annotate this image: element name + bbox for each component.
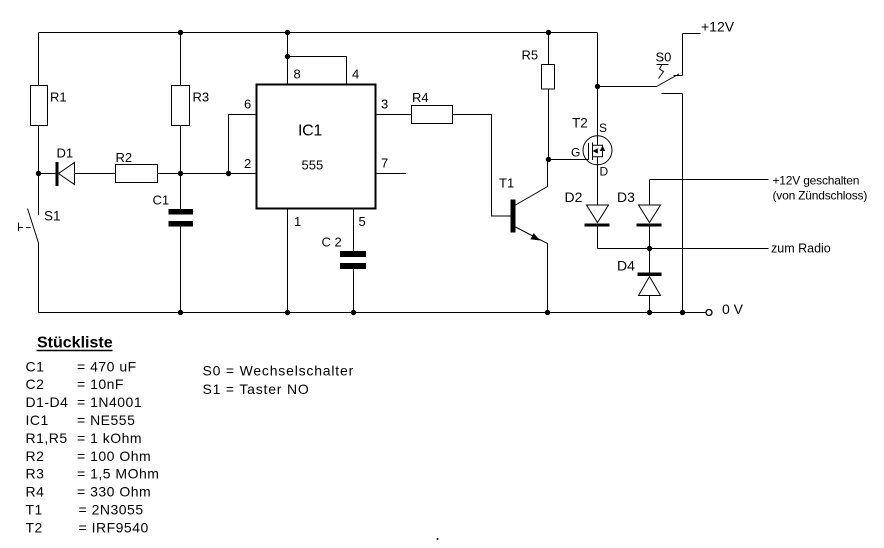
- svg-text:D2: D2: [565, 189, 583, 205]
- svg-text:R1,R5: R1,R5: [26, 430, 68, 446]
- svg-text:0 V: 0 V: [722, 301, 744, 317]
- svg-text:IC1: IC1: [26, 412, 49, 428]
- svg-text:R3: R3: [193, 90, 210, 105]
- svg-text:Stückliste: Stückliste: [37, 335, 113, 352]
- svg-text:S0: S0: [656, 50, 672, 65]
- svg-text:T1: T1: [26, 502, 43, 518]
- svg-text:C1: C1: [153, 193, 170, 208]
- svg-text:= 470 uF: = 470 uF: [77, 358, 137, 374]
- svg-text:= IRF9540: = IRF9540: [79, 519, 149, 535]
- svg-text:+12V: +12V: [701, 19, 735, 35]
- svg-text:R2: R2: [116, 150, 133, 165]
- svg-text:D1: D1: [57, 146, 74, 161]
- svg-text:2: 2: [244, 156, 251, 171]
- svg-text:= NE555: = NE555: [77, 412, 135, 428]
- svg-text:R5: R5: [522, 48, 539, 63]
- svg-text:R4: R4: [412, 90, 429, 105]
- svg-text:= 10nF: = 10nF: [77, 376, 124, 392]
- svg-text:8: 8: [294, 67, 301, 82]
- svg-text:R1: R1: [50, 90, 67, 105]
- svg-text:R4: R4: [26, 484, 45, 500]
- svg-text:3: 3: [381, 97, 388, 112]
- svg-text:R3: R3: [26, 466, 45, 482]
- svg-text:1: 1: [294, 214, 301, 229]
- svg-text:6: 6: [244, 97, 251, 112]
- svg-text:C2: C2: [26, 376, 45, 392]
- svg-text:= 330 Ohm: = 330 Ohm: [77, 484, 151, 500]
- svg-text:(von Zündschloss): (von Zündschloss): [773, 189, 868, 203]
- svg-text:S1 = Taster NO: S1 = Taster NO: [203, 381, 310, 397]
- svg-text:D1-D4: D1-D4: [26, 394, 69, 410]
- svg-text:T2: T2: [26, 519, 43, 535]
- svg-text:= 1,5 MOhm: = 1,5 MOhm: [77, 466, 159, 482]
- svg-text:555: 555: [302, 158, 324, 173]
- svg-text:D4: D4: [617, 258, 635, 274]
- svg-text:= 100 Ohm: = 100 Ohm: [77, 448, 151, 464]
- svg-text:zum Radio: zum Radio: [771, 242, 831, 256]
- svg-text:S0 = Wechselschalter: S0 = Wechselschalter: [203, 363, 355, 379]
- svg-text:= 1N4001: = 1N4001: [77, 394, 142, 410]
- svg-text:5: 5: [359, 214, 366, 229]
- svg-text:T1: T1: [499, 176, 514, 191]
- svg-text:+12V geschalten: +12V geschalten: [773, 174, 860, 188]
- svg-text:R2: R2: [26, 448, 45, 464]
- svg-text:C1: C1: [26, 358, 45, 374]
- svg-text:S: S: [599, 121, 607, 135]
- svg-text:D: D: [600, 165, 609, 179]
- svg-text:S1: S1: [44, 209, 61, 224]
- svg-text:4: 4: [352, 67, 359, 82]
- svg-text:D3: D3: [617, 189, 635, 205]
- svg-text:G: G: [571, 146, 580, 160]
- svg-text:= 1 kOhm: = 1 kOhm: [77, 430, 142, 446]
- svg-text:7: 7: [381, 156, 388, 171]
- svg-text:IC1: IC1: [298, 123, 322, 140]
- svg-text:= 2N3055: = 2N3055: [79, 502, 144, 518]
- svg-text:T2: T2: [572, 116, 588, 131]
- svg-text:C 2: C 2: [322, 235, 342, 250]
